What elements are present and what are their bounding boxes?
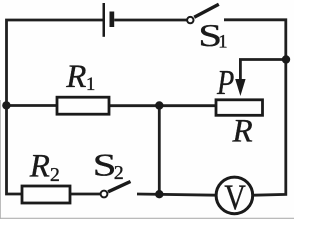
svg-text:R: R — [29, 149, 50, 185]
svg-text:2: 2 — [50, 164, 60, 186]
svg-text:P: P — [216, 63, 234, 102]
svg-text:V: V — [224, 177, 246, 217]
svg-text:2: 2 — [114, 162, 124, 184]
svg-text:R: R — [65, 59, 86, 95]
svg-text:R: R — [232, 114, 253, 150]
svg-text:1: 1 — [86, 74, 96, 95]
svg-text:1: 1 — [218, 32, 228, 53]
